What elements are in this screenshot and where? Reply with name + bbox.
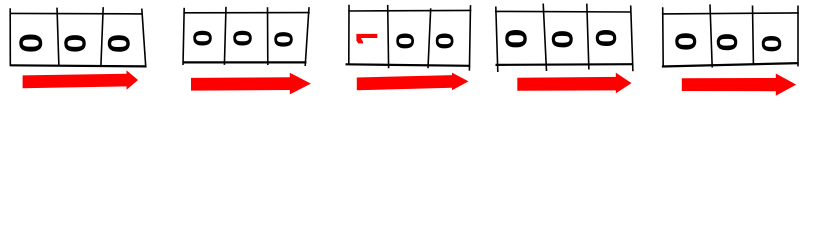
svg-text:0: 0 [757,35,788,53]
svg-text:0: 0 [391,32,419,49]
box3 red digit 1 (cell 1) [356,34,377,44]
svg-text:0: 0 [229,29,258,46]
svg-text:0: 0 [102,34,137,53]
counter box 5 frame [662,4,799,67]
svg-text:0: 0 [270,31,299,48]
svg-text:0: 0 [590,29,622,48]
svg-text:0: 0 [499,29,534,49]
svg-text:0: 0 [431,32,459,49]
svg-text:0: 0 [710,33,743,52]
red arrow 5 [682,74,796,96]
svg-text:0: 0 [57,34,92,53]
svg-text:0: 0 [14,33,50,53]
red arrow 3 [357,73,469,91]
red arrow 4 [517,73,631,94]
counter box 2 frame [183,7,310,66]
red arrow 1 [23,70,138,90]
counter box 1 frame [10,7,147,68]
counter box 4 frame [495,4,633,72]
svg-text:0: 0 [189,29,218,46]
counter box 3 frame [346,5,472,71]
svg-text:0: 0 [669,32,702,51]
red arrow 2 [191,73,311,95]
svg-text:0: 0 [546,30,579,49]
